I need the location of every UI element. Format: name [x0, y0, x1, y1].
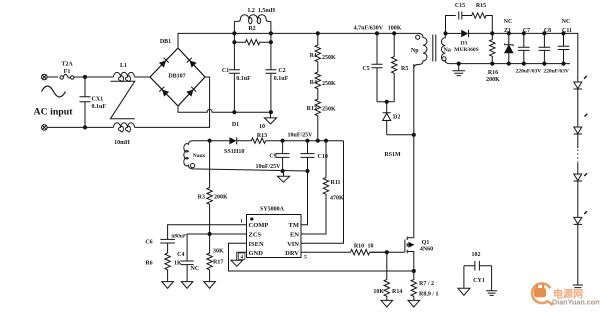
svg-text:Np: Np — [411, 48, 419, 54]
svg-text:RS1M: RS1M — [384, 152, 401, 158]
node R2 left — [232, 40, 236, 44]
svg-text:10: 10 — [368, 243, 374, 249]
diode D1 — [229, 137, 236, 144]
wire Np bottom to drain — [413, 64, 415, 238]
node C8 top — [542, 31, 546, 35]
node source sense junction — [412, 269, 416, 273]
node clamp D2 junction — [385, 100, 389, 104]
node switch net at drain line — [412, 133, 416, 137]
node snubber R16 top — [490, 31, 494, 35]
svg-text:AC input: AC input — [34, 107, 74, 118]
bridge diode top-left — [159, 58, 169, 68]
capacitor C2 — [265, 70, 276, 113]
svg-text:D3: D3 — [461, 41, 468, 47]
svg-text:1.5mH: 1.5mH — [258, 8, 275, 14]
svg-text:C1: C1 — [222, 68, 229, 74]
capacitor C10 — [301, 141, 315, 171]
wire LED string 1 — [577, 89, 579, 127]
wire Na top to D3 — [446, 32, 462, 34]
wire D2 to switch node — [387, 134, 414, 136]
svg-text:DB1: DB1 — [160, 39, 171, 45]
svg-text:DianYuan.com: DianYuan.com — [552, 298, 600, 307]
wire L1 bottom to bridge return — [135, 77, 210, 127]
zener Z1 — [504, 33, 513, 63]
ground aux rail — [277, 171, 289, 182]
resistor R12 — [315, 93, 320, 141]
bridge diode bottom-left — [159, 87, 169, 97]
svg-text:C6: C6 — [145, 239, 152, 245]
transformer secondary polarity dot — [442, 57, 446, 61]
resistor R16 — [490, 33, 495, 63]
wire bridge top to DC+ rail — [178, 33, 420, 48]
node Naux top — [208, 139, 212, 143]
svg-text:SS1H10: SS1H10 — [224, 149, 244, 155]
svg-text:D2: D2 — [393, 115, 400, 121]
winding Naux polarity dot — [191, 164, 195, 168]
svg-text:NC: NC — [562, 19, 571, 25]
svg-text:R17: R17 — [213, 260, 223, 266]
node gate R14 junction — [385, 250, 389, 254]
svg-text:Naux: Naux — [193, 153, 206, 159]
svg-text:EN: EN — [290, 232, 299, 239]
node CX1 top — [83, 75, 87, 79]
diode D3 — [461, 30, 492, 37]
wire LED string 3 — [577, 163, 579, 174]
svg-text:R14: R14 — [392, 289, 402, 295]
capacitor C7 — [518, 33, 530, 63]
svg-text:R12: R12 — [307, 106, 317, 112]
capacitor C5 — [372, 33, 383, 101]
svg-text:100K: 100K — [388, 26, 402, 32]
svg-text:5: 5 — [304, 255, 307, 261]
node R12 chain bottom — [316, 139, 320, 143]
bridge diode bottom-right — [186, 87, 196, 97]
svg-text:C4: C4 — [177, 252, 184, 258]
node C8 bottom — [542, 62, 546, 66]
node C11 top — [561, 31, 565, 35]
resistor R7 R8 R9 — [411, 271, 416, 300]
snubber C15 R15 branch — [446, 12, 493, 34]
resistor R2 — [234, 40, 271, 45]
node R11 top — [324, 139, 328, 143]
node C11 bottom — [561, 62, 565, 66]
capacitor C1 — [229, 70, 240, 113]
node C1 bottom — [232, 110, 236, 114]
inductor L1 top winding — [114, 72, 135, 81]
svg-text:R3: R3 — [198, 195, 205, 201]
terminal bottom AC input — [42, 125, 48, 131]
svg-text:10uF/25V: 10uF/25V — [255, 164, 281, 170]
terminal top AC input — [42, 74, 48, 80]
ground secondary earth — [452, 64, 465, 76]
wire LED string dotted continuation — [577, 150, 579, 164]
svg-text:102: 102 — [472, 252, 481, 258]
resistor R3 — [207, 141, 212, 234]
svg-text:R8,9 / 1: R8,9 / 1 — [419, 292, 439, 298]
svg-text:0.1uF: 0.1uF — [236, 76, 251, 82]
ground R17 — [204, 282, 216, 289]
svg-text:10: 10 — [259, 124, 265, 130]
svg-text:200K: 200K — [214, 195, 228, 201]
svg-text:ISEN: ISEN — [249, 241, 264, 248]
svg-text:SY5800A: SY5800A — [260, 207, 285, 213]
node R1 chain top — [316, 31, 320, 35]
LED D6 — [574, 173, 588, 181]
wire fuse to CX1 node — [74, 76, 114, 78]
capacitor C8 — [539, 33, 551, 63]
svg-text:D1: D1 — [232, 122, 239, 128]
wire output rail to corner — [492, 33, 578, 82]
wire secondary ground rail — [450, 63, 570, 65]
LED D7 — [574, 211, 588, 224]
svg-text:T2A: T2A — [61, 62, 73, 68]
svg-text:Q1: Q1 — [422, 240, 430, 246]
svg-text:R1: R1 — [310, 53, 317, 59]
svg-text:F1: F1 — [64, 69, 71, 75]
ground CY1 left triangle — [458, 288, 470, 295]
watermark logo circle — [532, 283, 600, 306]
svg-text:ZCS: ZCS — [249, 232, 262, 239]
svg-text:R5: R5 — [401, 66, 408, 72]
wire DRV to R10 — [301, 251, 351, 253]
svg-text:C5: C5 — [362, 66, 369, 72]
ground R6 — [162, 282, 174, 289]
winding Naux — [184, 141, 308, 171]
resistor R11 — [323, 141, 328, 234]
svg-text:CX1: CX1 — [92, 97, 104, 103]
diode D2 — [383, 102, 391, 135]
wire EN up to R11 — [301, 233, 326, 235]
ground R7 — [408, 300, 420, 307]
node CX1 bottom — [83, 125, 87, 129]
wire TM up to C10 bottom — [301, 171, 308, 225]
resistor R4 — [315, 66, 320, 93]
svg-text:DRV: DRV — [285, 250, 299, 257]
svg-text:R6: R6 — [145, 261, 152, 267]
wire L1 top to bridge — [135, 76, 151, 78]
svg-text:R10: R10 — [354, 243, 364, 249]
node secondary ground — [457, 62, 461, 66]
svg-text:470K: 470K — [330, 196, 344, 202]
node C7 bottom — [522, 62, 526, 66]
wire LED string 2 — [577, 134, 579, 148]
transformer core — [433, 35, 436, 62]
node R5 top — [392, 31, 396, 35]
svg-text:R7 / 2: R7 / 2 — [419, 281, 434, 287]
svg-text:250K: 250K — [322, 55, 336, 61]
node L2 left on DC+ rail — [232, 31, 236, 35]
fuse F1 — [60, 74, 74, 79]
svg-text:30K: 30K — [213, 249, 224, 255]
capacitor CX1 — [80, 77, 91, 127]
node C2 bottom — [269, 110, 273, 114]
svg-text:R16: R16 — [488, 70, 498, 76]
svg-text:250K: 250K — [322, 81, 336, 87]
svg-text:R13: R13 — [257, 133, 267, 139]
IC U1 SY5800A box — [247, 215, 302, 258]
wire top rail terminal to fuse — [47, 76, 58, 78]
svg-text:0.1uF: 0.1uF — [274, 76, 289, 82]
wire ISEN sense run — [229, 243, 414, 271]
svg-text:200K: 200K — [486, 77, 500, 83]
svg-text:R4: R4 — [310, 80, 317, 86]
LED D5 — [574, 114, 588, 134]
inductor L2 — [234, 15, 271, 24]
node R2 right — [269, 40, 273, 44]
wire COMP to C6 — [168, 225, 247, 240]
svg-text:TM: TM — [289, 222, 299, 229]
svg-text:DB107: DB107 — [168, 74, 185, 80]
resistor R10 — [351, 250, 387, 255]
svg-text:680nF: 680nF — [172, 234, 187, 240]
node C9 bottom — [281, 169, 285, 173]
capacitor CY1 — [464, 261, 492, 291]
svg-text:MUR360S: MUR360S — [454, 47, 478, 53]
wire R10 to gate — [370, 251, 405, 253]
svg-text:10K: 10K — [373, 289, 384, 295]
wire bridge bottom to DC- rail with hop — [178, 106, 271, 112]
transformer primary winding Np — [414, 33, 427, 68]
svg-text:220uF/63V: 220uF/63V — [543, 68, 569, 74]
wire bottom rail terminal to L1 — [47, 126, 113, 128]
node C9 top — [281, 139, 285, 143]
svg-text:R15: R15 — [476, 3, 486, 9]
svg-text:R11: R11 — [331, 180, 341, 186]
resistor R1 — [315, 33, 320, 66]
svg-text:C9: C9 — [269, 154, 276, 160]
node L2 right on DC+ rail — [269, 31, 273, 35]
wire clamp bottom C5 to R5 — [377, 101, 394, 103]
LED string termination bars — [573, 285, 583, 288]
bridge diode top-right — [187, 58, 197, 68]
wire GND pin to ground — [237, 252, 247, 260]
svg-text:R2: R2 — [248, 26, 255, 32]
svg-text:L1: L1 — [120, 63, 127, 69]
wire VIN up to aux rail — [301, 141, 344, 244]
resistor R13 — [237, 138, 344, 143]
mosfet Q1 — [405, 237, 414, 271]
svg-text:4.7nF/630V: 4.7nF/630V — [354, 26, 384, 32]
svg-text:Na: Na — [444, 48, 451, 54]
IC pin1 dot — [250, 217, 253, 220]
transformer primary polarity dot — [416, 35, 420, 39]
capacitor C6 — [160, 239, 175, 253]
resistor R14 — [384, 280, 389, 301]
svg-text:0.1uF: 0.1uF — [92, 104, 107, 110]
ground primary at C2 — [264, 112, 276, 124]
capacitor C4 — [181, 261, 194, 282]
ground C4 — [181, 282, 193, 289]
svg-text:VIN: VIN — [287, 241, 299, 248]
resistor R5 — [392, 33, 397, 101]
svg-text:250K: 250K — [322, 107, 336, 113]
svg-text:10mH: 10mH — [114, 140, 130, 146]
node Na top output — [443, 31, 447, 35]
wire ZCS to C4 — [187, 234, 246, 261]
wire L2 left leg — [233, 21, 235, 69]
ground CY1 right earth — [486, 291, 497, 296]
svg-text:L2: L2 — [248, 8, 255, 14]
node C10 top — [305, 139, 309, 143]
ground IC GND — [231, 260, 243, 266]
node Z1 bottom — [507, 62, 511, 66]
svg-text:C15: C15 — [455, 3, 465, 9]
svg-text:C2: C2 — [278, 68, 285, 74]
svg-text:GND: GND — [249, 250, 264, 257]
capacitor C9 — [276, 141, 290, 171]
node C10 bottom — [305, 169, 309, 173]
bridge rectifier DB1 diamond — [150, 48, 205, 106]
resistor R17 — [207, 234, 212, 282]
resistor R6 — [165, 253, 170, 282]
wire gate node to R14 — [386, 252, 388, 279]
svg-text:NC: NC — [191, 266, 200, 272]
node C5 top — [375, 31, 379, 35]
svg-text:COMP: COMP — [249, 222, 269, 229]
capacitor C11 — [558, 33, 570, 63]
svg-text:4N60: 4N60 — [420, 247, 433, 253]
LED D4 — [574, 76, 587, 89]
wire LED string 4 — [577, 181, 579, 217]
inductor L1 bottom winding — [114, 123, 135, 132]
node Z1 top — [507, 31, 511, 35]
svg-text:10uF/25V: 10uF/25V — [287, 132, 313, 138]
wire LED string 5 to termination — [577, 224, 579, 284]
svg-text:220uF/63V: 220uF/63V — [516, 68, 542, 74]
wire D1 anode — [210, 140, 230, 142]
pin number 4 with frame — [239, 253, 245, 261]
node R16 bottom — [490, 62, 494, 66]
svg-text:1: 1 — [240, 219, 243, 225]
svg-text:CY1: CY1 — [473, 278, 485, 284]
wire L2 right leg — [270, 21, 272, 69]
node ZCS R3 junction — [208, 232, 212, 236]
svg-text:NC: NC — [504, 19, 513, 25]
core Z symbol of common-mode choke L1 — [110, 81, 134, 119]
transformer secondary winding Na — [441, 33, 450, 63]
AC source sine symbol — [42, 86, 66, 97]
node C7 top — [522, 31, 526, 35]
ground R14 — [381, 300, 393, 307]
